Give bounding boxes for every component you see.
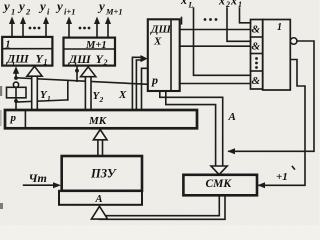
inverter bubble on OR output xyxy=(290,38,297,45)
junction dot A2 xyxy=(14,99,18,103)
bus arrow Y1 (hollow, МК to ДШ Y1) xyxy=(27,66,42,110)
label y_i+1 xyxy=(55,0,75,17)
wire МК to ДШ X upper input xyxy=(142,68,148,110)
svg-text:М+1: М+1 xyxy=(85,40,107,51)
svg-text:ПЗУ: ПЗУ xyxy=(90,167,117,181)
svg-text:+1: +1 xyxy=(276,171,288,183)
output arrow y_M+1 xyxy=(105,17,111,38)
vertical ellipsis in gate column xyxy=(255,57,258,69)
hollow arrowhead of bus A into СМК xyxy=(211,166,227,175)
svg-text:ДШ: ДШ xyxy=(68,52,91,66)
input xL label xyxy=(180,0,194,10)
counter СМК box xyxy=(183,175,257,196)
wire Чт into ПЗУ xyxy=(24,184,53,186)
svg-text:2: 2 xyxy=(25,7,31,17)
read signal Чт label xyxy=(29,171,47,185)
ellipsis dots between xL and x2 xyxy=(204,18,218,21)
svg-text:Чт: Чт xyxy=(29,171,47,185)
scan artifact left edge 1 xyxy=(0,86,2,96)
ellipsis dots between y_i+1 and y_M+1 xyxy=(79,27,91,30)
output arrow y1 xyxy=(9,17,15,37)
decoder U2 ДШ Y2 box xyxy=(64,38,116,66)
label Y2 xyxy=(93,90,104,104)
label ДШ Y1 xyxy=(6,52,48,67)
wire into МК register P xyxy=(15,101,17,110)
junction dot A1 xyxy=(14,76,18,80)
svg-text:y: y xyxy=(97,0,105,14)
junction dot under ДШ Y2 xyxy=(75,69,79,73)
bus arrow Y2 (hollow, МК to ДШ Y2) xyxy=(81,67,96,110)
second OR output wire to +1 input of СМК xyxy=(259,60,305,186)
svg-text:Х: Х xyxy=(153,36,162,48)
arrowhead Чт xyxy=(53,182,61,188)
svg-text:р: р xyxy=(151,73,158,87)
svg-text:x: x xyxy=(218,0,225,8)
label ДШ X xyxy=(150,24,172,48)
svg-text:2: 2 xyxy=(103,58,108,67)
svg-text:y: y xyxy=(17,0,25,14)
scan artifact left edge 2 xyxy=(0,203,3,209)
open circle on delay element xyxy=(13,82,18,87)
wire xL to gate &3 xyxy=(194,8,251,75)
label yi xyxy=(38,0,50,17)
wire from ДШ Y1 bottom down to junction xyxy=(15,71,17,78)
wire x2 to gate &2 xyxy=(227,8,251,41)
svg-text:y: y xyxy=(55,0,63,14)
output arrow y_i+1 xyxy=(66,17,72,38)
svg-text:1: 1 xyxy=(47,94,51,103)
feedback wire from bubble down right side xyxy=(229,41,314,151)
bus X (double line, МК to ДШ X) xyxy=(132,55,147,110)
hollow arrowhead into ПЗУ А strip xyxy=(91,206,107,219)
input x2 label xyxy=(218,0,230,9)
svg-text:МК: МК xyxy=(88,115,107,127)
arrowhead into address bus A xyxy=(227,148,235,154)
svg-text:СМК: СМК xyxy=(206,178,233,190)
label ДШ Y2 xyxy=(68,52,108,67)
ellipsis dots between y2 and yi xyxy=(29,27,41,30)
register МК box xyxy=(5,110,197,128)
address bus A from ДШ X to СМК (double line) xyxy=(160,91,223,167)
stray accent mark xyxy=(292,167,294,170)
AND gate column xyxy=(251,20,263,90)
lower link wire to chain junction xyxy=(16,100,68,102)
stray scan mark xyxy=(181,18,183,24)
wire ДШ X out 2 to gate &2 xyxy=(180,45,251,47)
svg-text:y: y xyxy=(2,0,10,14)
wire to ДШ X register input (sloped) xyxy=(16,78,148,85)
label y1 xyxy=(2,0,15,17)
svg-text:1: 1 xyxy=(11,7,15,17)
svg-text:А: А xyxy=(228,111,236,123)
svg-text:1: 1 xyxy=(44,58,48,67)
svg-text:ДШ: ДШ xyxy=(6,52,29,66)
svg-text:А: А xyxy=(95,194,103,205)
wire through delay element xyxy=(15,87,17,101)
svg-text:&: & xyxy=(252,41,261,53)
wire ДШ X out 1 to gate &1 xyxy=(180,29,251,31)
label y_M+1 xyxy=(97,0,123,17)
svg-text:М+1: М+1 xyxy=(105,7,123,17)
scan artifact left edge 3 xyxy=(0,110,2,126)
svg-text:1: 1 xyxy=(277,22,282,33)
bus СМК to ПЗУ address (double line feedback) xyxy=(100,195,226,219)
label y2 xyxy=(17,0,31,17)
ROM ПЗУ box xyxy=(62,156,142,191)
svg-text:Х: Х xyxy=(118,89,127,101)
svg-text:р: р xyxy=(10,112,17,124)
OR gate 1 box xyxy=(263,20,291,91)
feedback arrowhead into ДШ Y1 bottom xyxy=(13,66,19,74)
output arrow yi xyxy=(43,17,49,37)
input x1 label xyxy=(230,0,242,9)
address register A strip of ПЗУ xyxy=(59,191,142,205)
svg-text:&: & xyxy=(252,75,261,87)
svg-text:i+1: i+1 xyxy=(64,7,75,17)
bus ПЗУ to МК (hollow arrow) xyxy=(93,130,107,157)
decoder U3 ДШ X box xyxy=(148,19,180,91)
svg-text:x: x xyxy=(180,0,187,7)
wire ДШ X out 3 to gate &3 xyxy=(180,83,251,85)
decoder U1 ДШ Y1 box xyxy=(2,37,52,66)
arrowhead +1 into СМК xyxy=(258,182,266,188)
svg-text:1: 1 xyxy=(5,39,10,50)
label Y1 xyxy=(40,89,51,103)
svg-text:x: x xyxy=(230,0,237,8)
delay element box xyxy=(7,87,27,98)
wire x1 to gate &1 xyxy=(240,8,251,23)
output arrow (penultimate) xyxy=(94,17,100,38)
link wire down from P wire xyxy=(67,81,69,100)
svg-text:&: & xyxy=(252,24,261,36)
svg-text:2: 2 xyxy=(99,95,104,104)
svg-text:ДШ: ДШ xyxy=(150,24,172,36)
stub from ДШ Y2 bottom to P wire xyxy=(76,66,78,82)
svg-text:L: L xyxy=(188,1,194,10)
output arrow y2 xyxy=(20,17,26,37)
svg-text:y: y xyxy=(38,0,46,14)
